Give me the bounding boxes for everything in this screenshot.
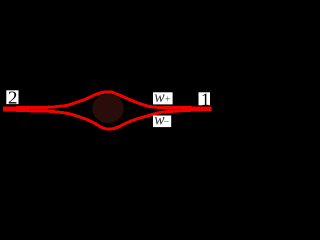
lower light path w- (ray bent under the lens from 2 to 1): [3, 109, 211, 129]
svg-text:+: +: [165, 94, 171, 105]
svg-text:1: 1: [201, 89, 210, 109]
label box 1 (observer, right): [199, 89, 211, 109]
label box w- (lower image): [153, 111, 171, 128]
label box 2 (source, left): [6, 88, 18, 108]
svg-text:−: −: [163, 117, 169, 128]
svg-text:w: w: [154, 89, 165, 106]
upper light path w+ (ray bent over the lens from 2 to 1): [3, 92, 211, 108]
label box w+ (upper image): [153, 89, 173, 106]
black hole (central massive object): [92, 94, 124, 123]
svg-text:2: 2: [8, 88, 18, 108]
